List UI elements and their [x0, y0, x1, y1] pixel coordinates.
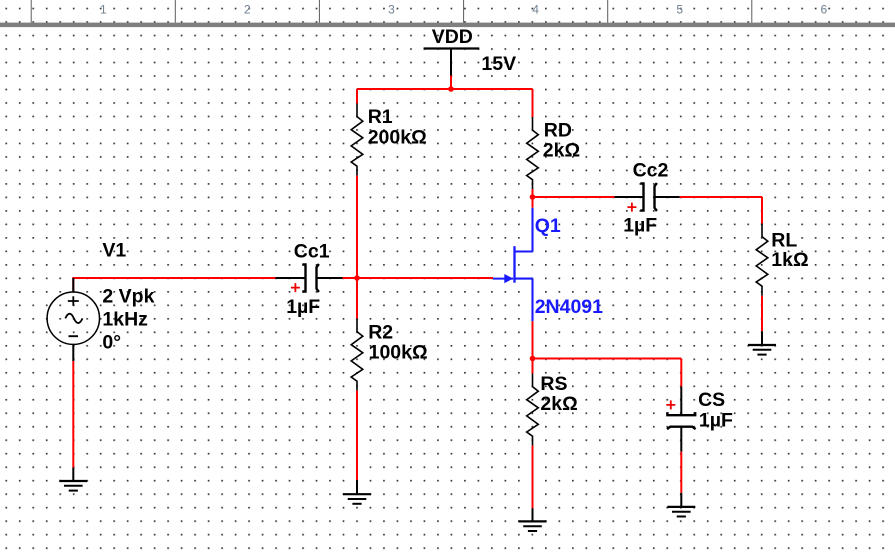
ground CS — [667, 493, 695, 517]
svg-text:5: 5 — [676, 3, 683, 17]
ruler ticks — [31, 0, 752, 23]
wire drain to Cc2 — [533, 196, 615, 198]
svg-text:200kΩ: 200kΩ — [368, 127, 427, 149]
wire Cc2 to RL — [680, 197, 762, 224]
ruler numbers — [100, 3, 828, 17]
polarity plus Cc2 — [627, 203, 636, 212]
wire CS bottom — [680, 452, 682, 493]
svg-text:Cc2: Cc2 — [633, 160, 669, 182]
node source junction — [530, 356, 536, 362]
wire RS bottom — [532, 446, 534, 509]
svg-text:Cc1: Cc1 — [294, 241, 330, 263]
svg-text:R2: R2 — [368, 321, 393, 343]
ground RS — [519, 508, 547, 531]
svg-text:4: 4 — [532, 3, 539, 17]
source V1 — [47, 278, 99, 361]
wire R1 top stub — [356, 89, 358, 104]
capacitor Cc2 — [615, 183, 680, 211]
polarity plus CS — [666, 400, 675, 409]
svg-text:6: 6 — [820, 3, 827, 17]
svg-text:0°: 0° — [102, 332, 121, 354]
node gate junction — [354, 275, 360, 281]
svg-text:1kΩ: 1kΩ — [771, 249, 808, 271]
wire R2 top stub — [356, 278, 358, 319]
svg-text:1µF: 1µF — [286, 296, 320, 318]
svg-text:2kΩ: 2kΩ — [540, 393, 577, 415]
resistor R2 — [351, 319, 363, 391]
svg-text:2kΩ: 2kΩ — [543, 140, 580, 162]
svg-text:1kHz: 1kHz — [102, 308, 148, 330]
svg-text:V1: V1 — [102, 240, 126, 262]
ground V1 — [59, 468, 87, 491]
wire RD top stub — [532, 89, 534, 117]
wire R2 bottom — [356, 391, 358, 481]
svg-text:100kΩ: 100kΩ — [369, 341, 428, 363]
node drain junction — [530, 194, 536, 200]
resistor RD — [527, 117, 539, 189]
wire V1 to Cc1 gate net — [73, 278, 275, 292]
svg-text:1µF: 1µF — [699, 409, 733, 431]
polarity plus Cc1 — [291, 283, 300, 292]
wire V1 bottom — [72, 361, 74, 468]
resistor RS — [527, 374, 539, 446]
svg-text:2: 2 — [244, 3, 251, 17]
wire VDD net top — [357, 76, 533, 90]
svg-text:15V: 15V — [481, 53, 516, 75]
svg-text:2 Vpk: 2 Vpk — [102, 285, 154, 307]
wire Cc1 to gate junction — [343, 277, 493, 279]
wire R1 bottom to gate net — [356, 176, 358, 278]
node VDD junction — [448, 86, 454, 92]
ground R2 — [343, 480, 371, 504]
svg-text:3: 3 — [388, 3, 395, 17]
capacitor Cc1 — [275, 264, 342, 292]
resistor R1 — [351, 104, 363, 176]
wire RL bottom — [761, 296, 763, 332]
power VDD symbol — [424, 49, 480, 76]
wire RS top stub — [532, 359, 534, 374]
arrow gate Q1 — [504, 274, 513, 283]
svg-text:RD: RD — [544, 120, 572, 142]
resistor RL — [756, 224, 768, 296]
wire source net — [533, 321, 682, 386]
wire drain red above Q1 — [532, 197, 534, 208]
svg-text:1: 1 — [100, 3, 107, 17]
svg-text:RS: RS — [540, 373, 567, 395]
svg-text:R1: R1 — [368, 106, 393, 128]
ground RL — [748, 331, 776, 354]
svg-text:VDD: VDD — [432, 26, 473, 48]
svg-text:1µF: 1µF — [623, 214, 657, 236]
wire RD bottom to drain node — [532, 189, 534, 197]
svg-text:2N4091: 2N4091 — [535, 296, 603, 318]
capacitor CS — [667, 387, 696, 452]
transistor Q1 2N4091 JFET — [493, 208, 533, 322]
svg-text:Q1: Q1 — [535, 215, 561, 237]
ruler bar — [0, 23, 895, 28]
svg-text:CS: CS — [698, 389, 725, 411]
